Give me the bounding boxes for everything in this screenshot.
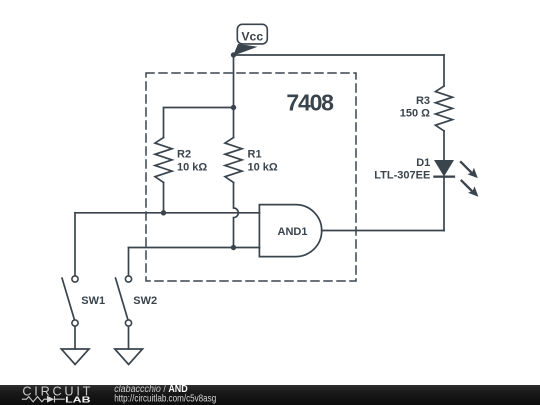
node junction dot R2 branch — [231, 105, 236, 110]
wire R3 to D1 — [443, 131, 445, 160]
LED emission arrow 2 — [461, 180, 473, 192]
switch SW2 lever — [116, 278, 129, 320]
wire R2 bottom — [163, 183, 165, 213]
node junction dot at Vcc — [231, 52, 236, 57]
switch SW2 bottom wire — [128, 326, 130, 349]
svg-text:R1: R1 — [248, 149, 262, 161]
wire SW2 riser — [128, 248, 130, 277]
wire D1 to output node — [443, 177, 445, 231]
svg-text:D1: D1 — [416, 157, 430, 169]
switch SW1 lever — [62, 278, 75, 320]
wire right branch top — [443, 55, 445, 86]
diode D1 cathode bar — [433, 176, 455, 178]
switch SW1 bottom wire — [74, 326, 76, 349]
svg-text:SW1: SW1 — [81, 295, 105, 307]
wire AND bottom input — [129, 247, 260, 249]
wire main vertical from Vcc node to R1 — [233, 55, 235, 138]
dashed IC boundary box 7408 — [146, 73, 356, 281]
ground symbol under SW1 — [61, 349, 89, 365]
svg-text:R2: R2 — [177, 149, 191, 161]
resistor R1 — [225, 138, 242, 183]
svg-text:http://circuitlab.com/c5v8asg: http://circuitlab.com/c5v8asg — [114, 394, 216, 405]
svg-text:R3: R3 — [416, 95, 430, 107]
wire AND top input — [75, 212, 260, 214]
svg-text:7408: 7408 — [286, 90, 334, 116]
wire AND output — [322, 230, 444, 232]
svg-text:10 kΩ: 10 kΩ — [177, 162, 207, 174]
svg-text:150 Ω: 150 Ω — [400, 108, 430, 120]
svg-text:AND1: AND1 — [278, 226, 308, 238]
resistor R3 — [436, 86, 453, 131]
wire branch to R2 — [164, 108, 234, 138]
op-amp style AND gate AND1 body — [259, 205, 321, 257]
logo resistor-diode squiggle — [22, 396, 65, 402]
svg-text:SW2: SW2 — [133, 295, 157, 307]
LED emission arrow 1 — [460, 161, 472, 173]
resistor R2 — [155, 138, 172, 183]
wire Vcc top rail — [234, 54, 445, 56]
svg-text:LAB: LAB — [65, 394, 91, 404]
node junction dot R1 bottom — [231, 245, 236, 250]
wire SW1 riser — [74, 213, 76, 276]
node junction dot R2 bottom — [161, 210, 166, 215]
Vcc flag box — [237, 24, 267, 44]
diode D1 LED triangle — [434, 160, 454, 177]
svg-text:10 kΩ: 10 kΩ — [248, 162, 278, 174]
switch SW1 terminal circles — [72, 276, 78, 282]
svg-text:LTL-307EE: LTL-307EE — [374, 170, 430, 182]
switch SW2 terminal circles — [125, 276, 131, 282]
ground symbol under SW2 — [115, 349, 143, 365]
svg-text:Vcc: Vcc — [241, 30, 263, 44]
wire R1 bottom with hop over input wire — [234, 183, 239, 248]
Vcc flag tail — [233, 44, 258, 56]
